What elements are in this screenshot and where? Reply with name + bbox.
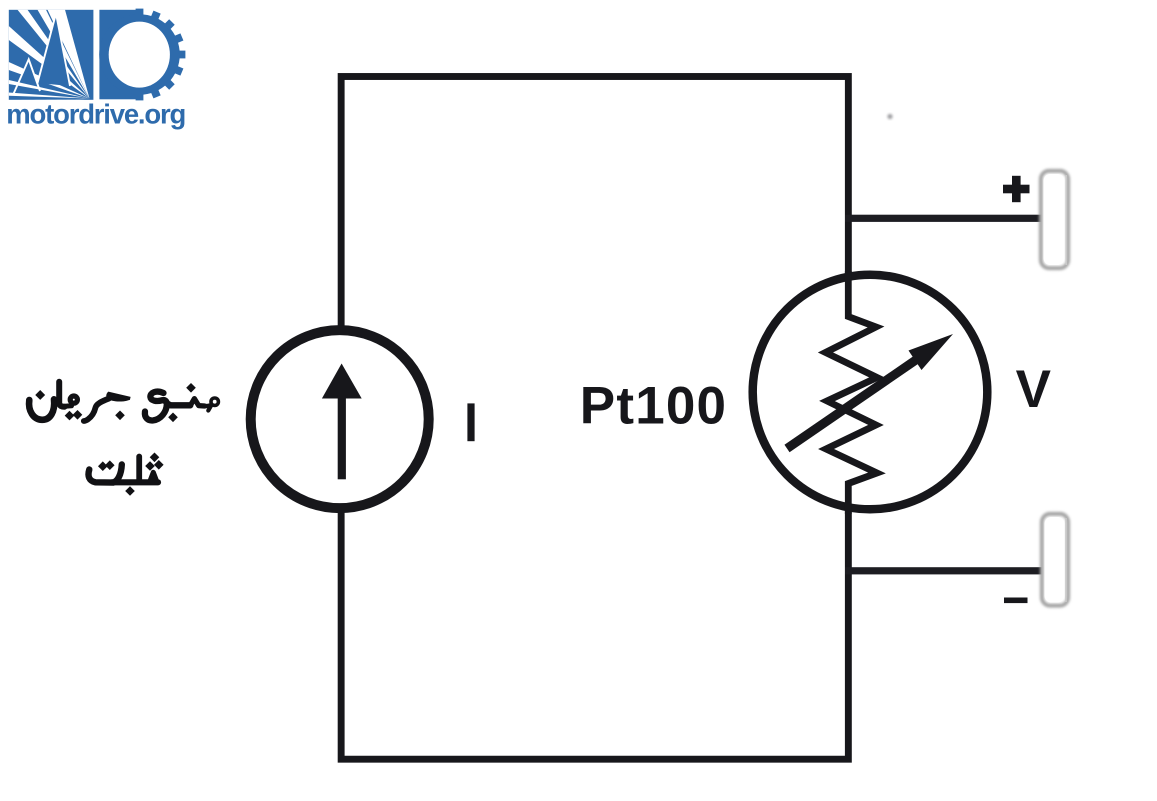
svg-text:motordrive.org: motordrive.org bbox=[6, 98, 185, 129]
svg-text:Pt100: Pt100 bbox=[580, 377, 727, 436]
svg-text:V: V bbox=[1016, 360, 1051, 419]
